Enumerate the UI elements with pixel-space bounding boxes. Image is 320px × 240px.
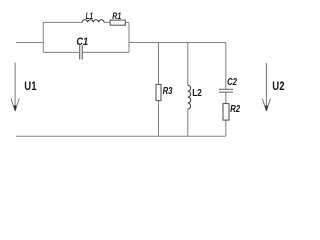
svg-text:C1: C1: [76, 36, 88, 48]
svg-text:L1: L1: [86, 11, 93, 21]
inductor L1: [82, 20, 104, 23]
arrow U1: [11, 63, 19, 112]
resistor branch wire R3: [158, 43, 160, 137]
wire bottom branch: [43, 51, 129, 53]
wire top rail left segment: [16, 42, 43, 44]
node block left vertical: [42, 22, 44, 52]
svg-text:R1: R1: [112, 11, 121, 21]
resistor R3: [156, 84, 161, 100]
svg-text:R2: R2: [230, 103, 240, 115]
wire top branch: [43, 21, 129, 23]
resistor R2: [223, 104, 229, 121]
inductor L2: [188, 85, 191, 109]
svg-text:C2: C2: [227, 76, 237, 88]
capacitor C2: [219, 89, 233, 92]
arrow U2: [262, 63, 270, 111]
svg-text:R3: R3: [163, 86, 173, 97]
svg-text:U2: U2: [272, 79, 284, 93]
inductor branch wire L2: [187, 43, 189, 137]
wire bottom rail: [16, 135, 226, 137]
capacitor branch wire C2 R2: [225, 43, 227, 137]
node block right vertical: [128, 22, 130, 52]
capacitor C1: [80, 45, 83, 59]
resistor R1: [110, 20, 125, 25]
svg-text:U1: U1: [24, 79, 36, 93]
wire top rail right segment: [129, 42, 226, 44]
svg-text:L2: L2: [192, 87, 202, 99]
